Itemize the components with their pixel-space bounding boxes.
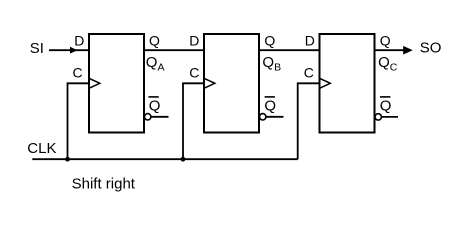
svg-text:Q: Q <box>149 97 161 114</box>
svg-text:Q: Q <box>380 32 391 48</box>
svg-text:CLK: CLK <box>27 140 56 157</box>
wire Q of U1 to D of U2 (node QA) <box>144 49 204 51</box>
svg-text:SO: SO <box>420 40 442 57</box>
svg-text:Q: Q <box>149 32 160 48</box>
D flip-flop U1 <box>89 34 144 133</box>
clock edge triangle U1 <box>89 78 100 88</box>
clock edge triangle U3 <box>320 78 331 88</box>
arrowhead SI <box>70 47 78 54</box>
svg-text:C: C <box>304 65 314 81</box>
svg-text:Shift right: Shift right <box>72 175 136 192</box>
wire CLK bus <box>32 158 297 160</box>
svg-text:C: C <box>73 65 83 81</box>
D flip-flop U3 <box>320 34 375 133</box>
svg-text:D: D <box>74 32 84 48</box>
wire SO output <box>375 49 409 51</box>
svg-text:Q: Q <box>264 32 275 48</box>
wire Qbar stub U3 <box>382 116 399 118</box>
svg-text:Q: Q <box>264 97 276 114</box>
junction CLK to U2 <box>181 157 186 162</box>
wire Qbar stub U1 <box>151 116 169 118</box>
inversion bubble Qbar U2 <box>260 114 266 120</box>
svg-text:D: D <box>305 32 315 48</box>
svg-text:D: D <box>189 32 199 48</box>
junction CLK to U1 <box>65 157 70 162</box>
svg-text:Q: Q <box>380 97 392 114</box>
arrowhead SO <box>403 46 413 55</box>
D flip-flop U2 <box>204 34 259 133</box>
clock edge triangle U2 <box>204 78 215 88</box>
wire Q of U2 to D of U3 (node QB) <box>259 49 320 51</box>
wire C input U3 <box>298 83 320 159</box>
wire C input U2 <box>183 83 204 159</box>
svg-text:SI: SI <box>30 40 44 57</box>
svg-text:C: C <box>189 65 199 81</box>
wire C input U1 <box>68 83 90 159</box>
inversion bubble Qbar U3 <box>375 114 381 120</box>
wire Qbar stub U2 <box>266 116 284 118</box>
wire SI input <box>49 49 89 51</box>
inversion bubble Qbar U1 <box>145 114 151 120</box>
